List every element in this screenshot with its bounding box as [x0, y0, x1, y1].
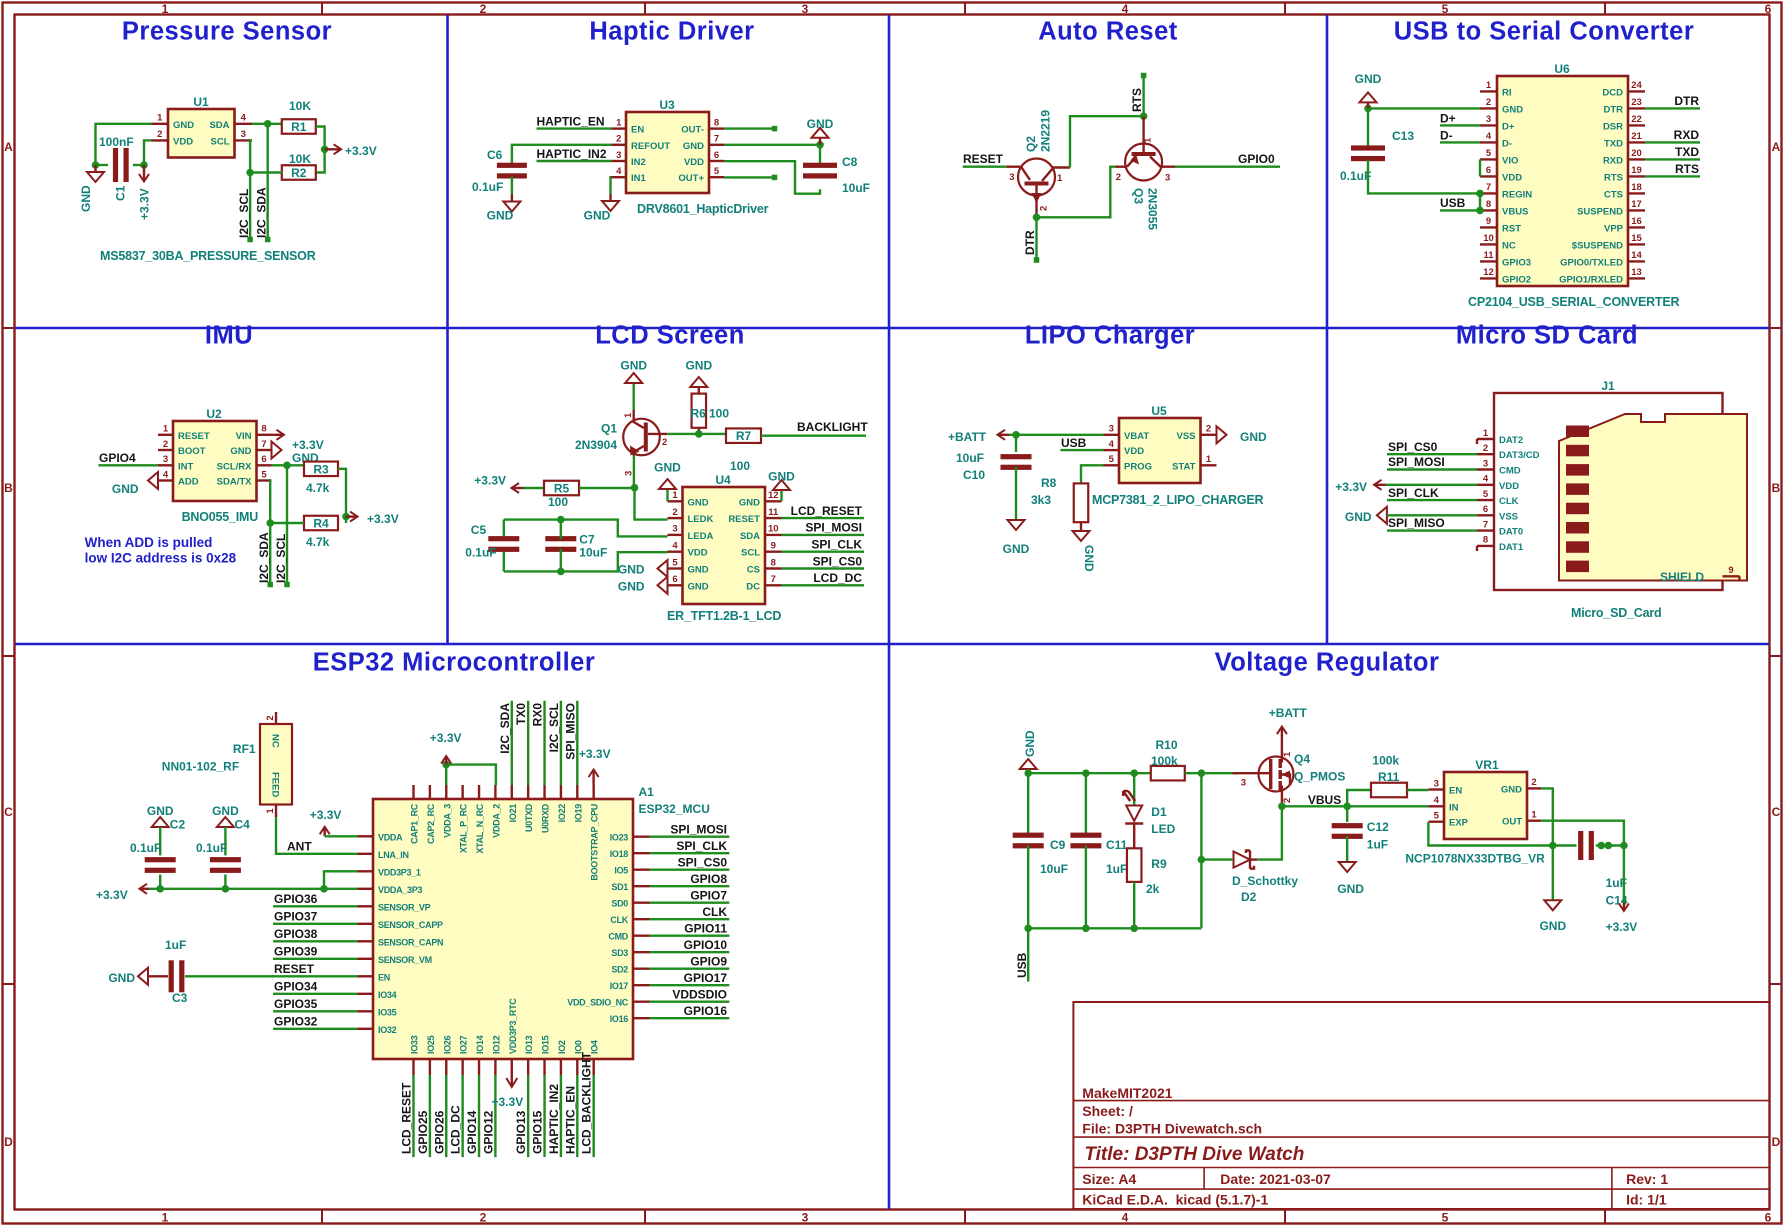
- svg-text:IO27: IO27: [459, 1035, 469, 1054]
- svg-text:GND: GND: [654, 461, 681, 475]
- svg-text:1: 1: [1206, 454, 1212, 465]
- svg-text:BOOT: BOOT: [178, 446, 206, 457]
- svg-text:GPIO39: GPIO39: [274, 945, 318, 959]
- svg-text:D+: D+: [1502, 121, 1515, 132]
- svg-text:D+: D+: [1440, 112, 1456, 126]
- svg-text:Q4: Q4: [1294, 752, 1310, 766]
- svg-text:GPIO1/RXLED: GPIO1/RXLED: [1559, 274, 1623, 285]
- svg-text:ESP32 Microcontroller: ESP32 Microcontroller: [313, 649, 596, 677]
- svg-text:C3: C3: [172, 991, 188, 1005]
- svg-text:SENSOR_CAPP: SENSOR_CAPP: [378, 920, 443, 930]
- svg-text:1: 1: [1143, 137, 1154, 143]
- svg-text:6: 6: [1765, 1211, 1772, 1225]
- svg-text:RTS: RTS: [1675, 162, 1699, 176]
- svg-text:J1: J1: [1601, 379, 1615, 393]
- svg-text:1: 1: [616, 117, 622, 128]
- svg-text:2: 2: [265, 715, 276, 720]
- svg-text:DSR: DSR: [1603, 121, 1623, 132]
- svg-text:21: 21: [1631, 131, 1642, 142]
- svg-text:14: 14: [1631, 250, 1642, 261]
- svg-text:GND: GND: [79, 185, 93, 212]
- svg-text:+3.3V: +3.3V: [474, 474, 506, 488]
- svg-text:VDDA_3P3: VDDA_3P3: [378, 885, 422, 895]
- svg-text:Q3: Q3: [1132, 188, 1146, 204]
- svg-text:USB: USB: [1061, 436, 1087, 450]
- svg-text:D-: D-: [1502, 138, 1512, 149]
- svg-text:GPIO4: GPIO4: [99, 451, 136, 465]
- svg-text:U4: U4: [715, 473, 731, 487]
- svg-text:ADD: ADD: [178, 477, 199, 488]
- svg-text:2: 2: [1206, 424, 1211, 435]
- svg-text:GPIO8: GPIO8: [690, 872, 727, 886]
- svg-text:IO15: IO15: [541, 1035, 551, 1054]
- svg-text:I2C_SDA: I2C_SDA: [255, 187, 269, 238]
- svg-text:8: 8: [714, 117, 719, 128]
- svg-text:EN: EN: [378, 972, 390, 982]
- svg-text:GND: GND: [1082, 545, 1096, 572]
- svg-text:C6: C6: [487, 148, 503, 162]
- svg-text:22: 22: [1631, 114, 1642, 125]
- svg-text:IO26: IO26: [442, 1035, 452, 1054]
- svg-text:R3: R3: [313, 462, 329, 476]
- svg-text:VDD: VDD: [1499, 481, 1519, 492]
- svg-text:RESET: RESET: [274, 962, 315, 976]
- svg-text:SCL: SCL: [741, 548, 760, 559]
- svg-text:R10: R10: [1156, 738, 1178, 752]
- svg-text:0.1uF: 0.1uF: [196, 841, 227, 855]
- svg-text:3: 3: [1434, 778, 1439, 789]
- svg-text:GND: GND: [688, 497, 709, 508]
- svg-text:GND: GND: [768, 470, 795, 484]
- svg-text:VPP: VPP: [1604, 223, 1624, 234]
- svg-text:VDDA: VDDA: [378, 832, 403, 842]
- svg-text:SD3: SD3: [611, 948, 628, 958]
- svg-text:DC: DC: [746, 581, 760, 592]
- svg-text:SD0: SD0: [611, 899, 628, 909]
- svg-text:100: 100: [548, 495, 568, 509]
- svg-text:GND: GND: [147, 804, 174, 818]
- svg-text:+3.3V: +3.3V: [367, 512, 399, 526]
- svg-text:VDD: VDD: [688, 548, 708, 559]
- svg-text:R7: R7: [736, 429, 752, 443]
- svg-text:5: 5: [1442, 2, 1449, 16]
- svg-text:RST: RST: [1502, 223, 1521, 234]
- svg-text:RESET: RESET: [728, 514, 760, 525]
- svg-text:SPI_CLK: SPI_CLK: [811, 538, 862, 552]
- svg-text:U0TXD: U0TXD: [524, 803, 534, 832]
- svg-text:IO33: IO33: [410, 1035, 420, 1054]
- svg-text:3: 3: [802, 2, 809, 16]
- svg-text:IO22: IO22: [557, 804, 567, 823]
- svg-text:1: 1: [1486, 80, 1492, 91]
- svg-text:IN2: IN2: [631, 157, 646, 168]
- svg-text:5: 5: [714, 166, 720, 177]
- svg-text:R11: R11: [1378, 770, 1400, 784]
- svg-text:VBAT: VBAT: [1124, 431, 1149, 442]
- svg-text:GPIO35: GPIO35: [274, 997, 318, 1011]
- svg-text:10K: 10K: [289, 99, 311, 113]
- svg-text:Micro SD Card: Micro SD Card: [1456, 322, 1638, 350]
- svg-text:low I2C address is 0x28: low I2C address is 0x28: [85, 551, 237, 566]
- svg-text:RTS: RTS: [1604, 172, 1623, 183]
- svg-text:PROG: PROG: [1124, 461, 1152, 472]
- svg-text:I2C_SCL: I2C_SCL: [274, 534, 288, 583]
- svg-text:DAT2: DAT2: [1499, 435, 1523, 446]
- svg-text:11: 11: [1483, 250, 1494, 261]
- svg-text:GPIO13: GPIO13: [514, 1110, 528, 1154]
- svg-text:U1: U1: [193, 95, 209, 109]
- svg-text:100k: 100k: [1372, 754, 1399, 768]
- svg-text:2N3904: 2N3904: [575, 438, 617, 452]
- svg-text:7: 7: [714, 134, 719, 145]
- svg-text:DAT1: DAT1: [1499, 542, 1524, 553]
- svg-text:18: 18: [1631, 182, 1642, 193]
- svg-text:SENSOR_CAPN: SENSOR_CAPN: [378, 937, 443, 947]
- svg-text:C8: C8: [842, 155, 858, 169]
- svg-text:SD1: SD1: [611, 882, 628, 892]
- svg-text:EN: EN: [1449, 786, 1462, 797]
- svg-text:2N2219: 2N2219: [1039, 110, 1053, 152]
- svg-text:IO2: IO2: [557, 1040, 567, 1054]
- svg-text:7: 7: [1486, 182, 1491, 193]
- svg-text:DCD: DCD: [1602, 87, 1623, 98]
- svg-text:SDA: SDA: [209, 120, 229, 131]
- svg-text:Id: 1/1: Id: 1/1: [1626, 1192, 1667, 1208]
- svg-text:6: 6: [672, 574, 677, 585]
- svg-text:2: 2: [1116, 172, 1121, 183]
- svg-text:2: 2: [1282, 798, 1293, 803]
- svg-text:EN: EN: [631, 125, 644, 136]
- svg-text:TX0: TX0: [514, 703, 528, 725]
- svg-text:19: 19: [1631, 165, 1642, 176]
- svg-text:VDD: VDD: [1502, 172, 1522, 183]
- svg-text:IO12: IO12: [491, 1035, 501, 1054]
- svg-text:GND: GND: [739, 497, 760, 508]
- svg-text:5: 5: [1483, 489, 1489, 500]
- svg-text:GPIO16: GPIO16: [684, 1004, 728, 1018]
- svg-text:GPIO26: GPIO26: [432, 1110, 446, 1154]
- svg-text:10uF: 10uF: [579, 546, 607, 560]
- svg-text:C11: C11: [1106, 838, 1128, 852]
- svg-text:Date: 2021-03-07: Date: 2021-03-07: [1220, 1171, 1331, 1187]
- svg-text:Micro_SD_Card: Micro_SD_Card: [1571, 606, 1662, 620]
- svg-text:GND: GND: [487, 209, 514, 223]
- svg-text:GPIO14: GPIO14: [465, 1110, 479, 1154]
- svg-text:GPIO32: GPIO32: [274, 1015, 318, 1029]
- svg-text:STAT: STAT: [1172, 461, 1196, 472]
- svg-text:Q1: Q1: [601, 422, 617, 436]
- svg-text:+3.3V: +3.3V: [345, 144, 377, 158]
- svg-text:12: 12: [768, 490, 779, 501]
- svg-text:VSS: VSS: [1499, 511, 1518, 522]
- svg-text:6: 6: [261, 454, 266, 465]
- svg-text:EXP: EXP: [1449, 818, 1469, 829]
- svg-text:GND: GND: [618, 580, 645, 594]
- svg-text:R5: R5: [554, 482, 570, 496]
- svg-text:VSS: VSS: [1176, 431, 1195, 442]
- svg-text:GND: GND: [688, 565, 709, 576]
- svg-text:CMD: CMD: [1499, 466, 1521, 477]
- svg-text:B: B: [4, 481, 13, 495]
- svg-text:4: 4: [1486, 131, 1492, 142]
- svg-text:RX0: RX0: [531, 703, 545, 727]
- svg-text:KiCad E.D.A. kicad (5.1.7)-1: KiCad E.D.A. kicad (5.1.7)-1: [1082, 1192, 1268, 1208]
- svg-text:13: 13: [1631, 267, 1642, 278]
- svg-text:1: 1: [265, 808, 276, 814]
- svg-text:U3: U3: [659, 98, 675, 112]
- svg-text:A: A: [1772, 140, 1781, 154]
- svg-text:ESP32_MCU: ESP32_MCU: [639, 802, 710, 816]
- svg-text:6: 6: [1765, 2, 1772, 16]
- svg-text:GPIO7: GPIO7: [690, 889, 727, 903]
- svg-text:2: 2: [662, 437, 667, 448]
- svg-text:IO19: IO19: [573, 804, 583, 823]
- svg-text:6: 6: [714, 150, 719, 161]
- svg-text:6: 6: [1483, 504, 1488, 515]
- svg-text:GND: GND: [1337, 882, 1364, 896]
- svg-text:C7: C7: [579, 533, 595, 547]
- svg-text:GND: GND: [108, 971, 135, 985]
- svg-text:GPIO12: GPIO12: [481, 1110, 495, 1154]
- svg-text:GND: GND: [1539, 919, 1566, 933]
- svg-text:1: 1: [1483, 428, 1489, 439]
- svg-text:GND: GND: [230, 446, 251, 457]
- svg-text:GND: GND: [1003, 542, 1030, 556]
- svg-text:+3.3V: +3.3V: [579, 747, 611, 761]
- svg-text:8: 8: [1486, 199, 1491, 210]
- svg-text:1: 1: [162, 1211, 169, 1225]
- svg-text:4: 4: [672, 541, 678, 552]
- svg-text:VDD: VDD: [173, 136, 193, 147]
- svg-text:+3.3V: +3.3V: [310, 808, 342, 822]
- svg-text:LCD_DC: LCD_DC: [449, 1105, 463, 1154]
- svg-text:5: 5: [1434, 811, 1440, 822]
- svg-text:GND: GND: [584, 209, 611, 223]
- svg-text:+3.3V: +3.3V: [492, 1095, 524, 1109]
- svg-text:7: 7: [261, 439, 266, 450]
- svg-text:3: 3: [1241, 778, 1246, 789]
- svg-text:SPI_MISO: SPI_MISO: [1388, 516, 1445, 530]
- svg-text:BOOTSTRAP_CPU: BOOTSTRAP_CPU: [590, 804, 600, 881]
- svg-text:R8: R8: [1041, 476, 1057, 490]
- svg-text:+3.3V: +3.3V: [1606, 920, 1638, 934]
- svg-text:5: 5: [1486, 148, 1492, 159]
- svg-text:3: 3: [1109, 424, 1114, 435]
- svg-text:1: 1: [1057, 173, 1063, 184]
- svg-text:IO4: IO4: [590, 1040, 600, 1054]
- svg-text:FEED: FEED: [270, 772, 281, 797]
- svg-text:GND: GND: [1502, 104, 1523, 115]
- svg-text:CAP1_RC: CAP1_RC: [410, 803, 420, 844]
- svg-text:0.1uF: 0.1uF: [465, 546, 496, 560]
- svg-text:4: 4: [616, 166, 622, 177]
- svg-text:Q2: Q2: [1024, 136, 1038, 152]
- svg-text:OUT-: OUT-: [681, 125, 704, 136]
- svg-text:2: 2: [1483, 443, 1488, 454]
- svg-text:+3.3V: +3.3V: [430, 731, 462, 745]
- svg-text:SPI_MOSI: SPI_MOSI: [670, 823, 727, 837]
- svg-text:+3.3V: +3.3V: [292, 438, 324, 452]
- svg-text:2: 2: [163, 439, 168, 450]
- svg-text:4: 4: [241, 113, 247, 124]
- svg-text:LCD_BACKLIGHT: LCD_BACKLIGHT: [580, 1051, 594, 1154]
- svg-text:CTS: CTS: [1604, 189, 1623, 200]
- svg-text:LED: LED: [1151, 822, 1175, 836]
- svg-text:17: 17: [1631, 199, 1642, 210]
- svg-text:2: 2: [672, 507, 677, 518]
- svg-text:VDD3P3_RTC: VDD3P3_RTC: [508, 998, 518, 1054]
- svg-text:GPIO0: GPIO0: [1238, 152, 1275, 166]
- svg-text:D1: D1: [1151, 805, 1167, 819]
- svg-text:5: 5: [672, 557, 678, 568]
- svg-text:R6: R6: [691, 407, 707, 421]
- svg-text:IO13: IO13: [524, 1035, 534, 1054]
- svg-text:GPIO36: GPIO36: [274, 892, 318, 906]
- svg-text:A: A: [4, 140, 13, 154]
- svg-text:0.1uF: 0.1uF: [1340, 169, 1371, 183]
- svg-text:VDDA_3: VDDA_3: [442, 804, 452, 838]
- svg-text:SENSOR_VP: SENSOR_VP: [378, 902, 431, 912]
- svg-text:HAPTIC_EN: HAPTIC_EN: [563, 1086, 577, 1154]
- svg-text:SPI_MOSI: SPI_MOSI: [1388, 455, 1445, 469]
- svg-text:C4: C4: [235, 818, 251, 832]
- svg-text:IO14: IO14: [475, 1035, 485, 1054]
- svg-text:+BATT: +BATT: [948, 430, 987, 444]
- svg-text:1: 1: [1282, 751, 1293, 757]
- svg-text:2: 2: [480, 2, 487, 16]
- svg-text:C13: C13: [1392, 129, 1414, 143]
- svg-text:3: 3: [802, 1211, 809, 1225]
- svg-text:+3.3V: +3.3V: [96, 888, 128, 902]
- svg-text:9: 9: [1728, 565, 1733, 576]
- svg-text:4: 4: [1122, 1211, 1129, 1225]
- svg-text:GPIO15: GPIO15: [531, 1110, 545, 1154]
- svg-text:+3.3V: +3.3V: [138, 188, 152, 220]
- svg-text:GND: GND: [212, 804, 239, 818]
- svg-text:VDDA_2: VDDA_2: [491, 804, 501, 838]
- svg-text:2: 2: [1486, 97, 1491, 108]
- svg-text:VIO: VIO: [1502, 155, 1518, 166]
- svg-text:ER_TFT1.2B-1_LCD: ER_TFT1.2B-1_LCD: [667, 609, 781, 623]
- svg-text:INT: INT: [178, 461, 194, 472]
- svg-text:GND: GND: [688, 581, 709, 592]
- svg-text:SCL: SCL: [211, 136, 230, 147]
- svg-text:3: 3: [1009, 172, 1014, 183]
- svg-text:20: 20: [1631, 148, 1642, 159]
- svg-text:GPIO38: GPIO38: [274, 927, 318, 941]
- svg-text:IMU: IMU: [205, 322, 253, 350]
- svg-text:23: 23: [1631, 97, 1642, 108]
- svg-text:2: 2: [480, 1211, 487, 1225]
- svg-text:LCD_RESET: LCD_RESET: [400, 1082, 414, 1154]
- svg-text:LCD Screen: LCD Screen: [595, 322, 745, 350]
- svg-text:Q_PMOS: Q_PMOS: [1294, 770, 1345, 784]
- svg-text:+BATT: +BATT: [1269, 706, 1308, 720]
- svg-text:SPI_CS0: SPI_CS0: [813, 554, 863, 568]
- svg-text:3: 3: [672, 524, 677, 535]
- svg-text:IO25: IO25: [426, 1035, 436, 1054]
- svg-text:TXD: TXD: [1604, 138, 1623, 149]
- svg-text:VBUS: VBUS: [1502, 206, 1528, 217]
- svg-text:GND: GND: [1023, 730, 1037, 757]
- svg-text:3: 3: [1486, 114, 1491, 125]
- svg-text:2N3055: 2N3055: [1146, 188, 1160, 230]
- svg-text:MakeMIT2021: MakeMIT2021: [1082, 1085, 1172, 1101]
- svg-text:SENSOR_VM: SENSOR_VM: [378, 955, 432, 965]
- svg-text:R2: R2: [291, 166, 307, 180]
- svg-text:1: 1: [623, 412, 634, 418]
- svg-text:100: 100: [709, 407, 729, 421]
- svg-text:VDD: VDD: [684, 157, 704, 168]
- svg-text:3: 3: [241, 129, 246, 140]
- svg-text:CMD: CMD: [608, 932, 628, 942]
- svg-text:1: 1: [672, 490, 678, 501]
- svg-text:8: 8: [771, 557, 776, 568]
- svg-text:CP2104_USB_SERIAL_CONVERTER: CP2104_USB_SERIAL_CONVERTER: [1468, 295, 1680, 309]
- svg-text:7: 7: [771, 574, 776, 585]
- svg-text:MCP7381_2_LIPO_CHARGER: MCP7381_2_LIPO_CHARGER: [1092, 493, 1264, 507]
- svg-text:IO18: IO18: [610, 849, 629, 859]
- svg-text:1uF: 1uF: [165, 938, 186, 952]
- svg-text:C5: C5: [471, 523, 487, 537]
- svg-text:Sheet: /: Sheet: /: [1082, 1103, 1133, 1119]
- svg-text:10uF: 10uF: [842, 181, 870, 195]
- svg-text:SPI_CLK: SPI_CLK: [1388, 486, 1439, 500]
- svg-text:IO0: IO0: [573, 1040, 583, 1054]
- svg-text:GND: GND: [1345, 510, 1372, 524]
- svg-text:NC: NC: [270, 734, 281, 748]
- svg-text:CS: CS: [747, 565, 760, 576]
- svg-text:MS5837_30BA_PRESSURE_SENSOR: MS5837_30BA_PRESSURE_SENSOR: [100, 249, 316, 263]
- svg-text:USB to Serial Converter: USB to Serial Converter: [1394, 18, 1695, 46]
- svg-text:IN: IN: [1449, 802, 1459, 813]
- svg-text:HAPTIC_IN2: HAPTIC_IN2: [547, 1084, 561, 1154]
- svg-text:5: 5: [261, 469, 267, 480]
- svg-text:4.7k: 4.7k: [306, 535, 330, 549]
- svg-text:12: 12: [1483, 267, 1494, 278]
- svg-text:XTAL_N_RC: XTAL_N_RC: [475, 803, 485, 853]
- svg-text:VDD_SDIO_NC: VDD_SDIO_NC: [567, 998, 629, 1008]
- svg-text:R1: R1: [291, 120, 307, 134]
- svg-text:IO32: IO32: [378, 1025, 397, 1035]
- svg-text:2: 2: [1531, 777, 1536, 788]
- svg-text:U5: U5: [1151, 404, 1167, 418]
- svg-text:10uF: 10uF: [1040, 862, 1068, 876]
- svg-text:+3.3V: +3.3V: [1335, 480, 1367, 494]
- svg-text:GND: GND: [683, 141, 704, 152]
- svg-text:REFOUT: REFOUT: [631, 141, 670, 152]
- svg-text:IO21: IO21: [508, 804, 518, 823]
- svg-text:SCL/RX: SCL/RX: [217, 461, 253, 472]
- svg-text:I2C_SCL: I2C_SCL: [237, 189, 251, 238]
- svg-text:NCP1078NX33DTBG_VR: NCP1078NX33DTBG_VR: [1405, 852, 1545, 866]
- svg-text:GND: GND: [1501, 784, 1522, 795]
- svg-text:IO34: IO34: [378, 990, 397, 1000]
- svg-text:C9: C9: [1050, 838, 1066, 852]
- svg-text:SDA/TX: SDA/TX: [217, 477, 253, 488]
- svg-text:10: 10: [768, 524, 779, 535]
- svg-text:4.7k: 4.7k: [306, 481, 330, 495]
- svg-text:SPI_CLK: SPI_CLK: [676, 839, 727, 853]
- svg-text:A1: A1: [639, 785, 655, 799]
- svg-text:4: 4: [1122, 2, 1129, 16]
- svg-text:CLK: CLK: [610, 915, 628, 925]
- svg-text:VBUS: VBUS: [1308, 793, 1341, 807]
- svg-text:SUSPEND: SUSPEND: [1577, 206, 1623, 217]
- svg-text:RI: RI: [1502, 87, 1512, 98]
- svg-text:CAP2_RC: CAP2_RC: [426, 803, 436, 844]
- svg-text:RXD: RXD: [1674, 128, 1700, 142]
